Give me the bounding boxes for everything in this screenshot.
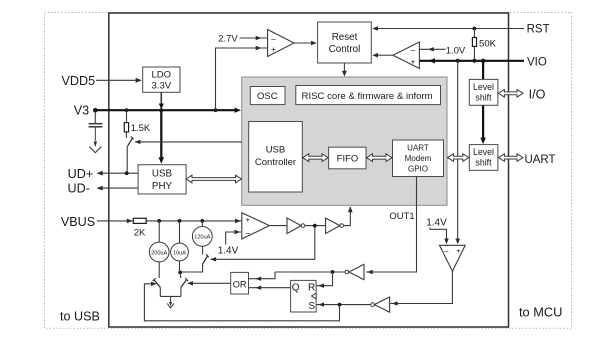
junction VIO/comparator riser bbox=[456, 59, 460, 63]
svg-text:2K: 2K bbox=[134, 227, 146, 238]
wire G4 out to S input bbox=[316, 304, 371, 306]
svg-text:Level: Level bbox=[473, 147, 494, 157]
svg-text:Reset: Reset bbox=[332, 32, 358, 43]
wire 2.7V to comparator minus bbox=[240, 37, 268, 39]
svg-text:200uA: 200uA bbox=[151, 250, 167, 256]
bus USB PHY to core bbox=[186, 175, 242, 183]
wire V3 to 1.5K bbox=[126, 110, 128, 122]
wire VIO riser down to window comparator bbox=[457, 61, 459, 239]
svg-text:1.4V: 1.4V bbox=[218, 246, 239, 257]
inverter G3 (left pointing) bbox=[349, 264, 364, 279]
LDO 3.3V regulator bbox=[143, 67, 180, 92]
svg-text:UD-: UD- bbox=[68, 182, 90, 196]
svg-text:Controller: Controller bbox=[255, 157, 296, 168]
wire Q output to OR input 2 bbox=[249, 287, 291, 289]
bus level shift 1 to I/O pin bbox=[498, 90, 523, 98]
svg-text:shift: shift bbox=[475, 158, 492, 168]
level shift block 2 (UART) bbox=[469, 145, 498, 171]
wire emitter rail bbox=[160, 295, 181, 297]
wire to OR input 1 bbox=[249, 272, 276, 279]
USB Controller block bbox=[249, 122, 303, 193]
RISC core block bbox=[296, 86, 441, 105]
svg-text:1.4V: 1.4V bbox=[426, 217, 447, 228]
svg-text:VDD5: VDD5 bbox=[62, 74, 96, 88]
current source 120uA bbox=[201, 221, 203, 227]
svg-text:+: + bbox=[411, 58, 416, 67]
wire UD- bbox=[102, 187, 138, 189]
wire RST bbox=[377, 28, 524, 30]
resistor 50K bbox=[473, 29, 475, 38]
wire G2 up into core bbox=[344, 207, 351, 226]
transistor Q2 bbox=[179, 272, 182, 278]
junction UD+ / pull-up bbox=[125, 171, 129, 175]
junction S / feedback bbox=[338, 303, 342, 307]
wire UD+ bbox=[102, 172, 138, 174]
bus UART GPIO to level shift 2 bbox=[448, 154, 469, 162]
op-amp comparator U2 (1.0V VIO detect) bbox=[393, 42, 419, 69]
svg-text:GPIO: GPIO bbox=[408, 165, 428, 174]
wire 1.5K to switch bbox=[125, 132, 127, 138]
FF1 clock mark bbox=[312, 293, 317, 299]
grey MCU core region bbox=[242, 77, 447, 205]
op-amp comparator U1 (2.7V POR) bbox=[268, 30, 294, 57]
junction RST / 50K bbox=[473, 27, 477, 31]
svg-text:shift: shift bbox=[475, 93, 492, 103]
wire level shift 1 to level shift 2 (thick) bbox=[482, 105, 484, 138]
svg-text:–: – bbox=[246, 228, 251, 237]
svg-text:USB: USB bbox=[266, 144, 286, 155]
wire U3 out to inverter bbox=[269, 225, 287, 227]
wire switch S2 to 10uA node bbox=[180, 264, 203, 272]
wire VBUS after 2K bbox=[146, 220, 241, 222]
wire V3 down to USB PHY (thick) bbox=[160, 110, 162, 158]
inverter G1 bbox=[287, 218, 301, 234]
wire U4 out to inverter G4 bbox=[390, 271, 453, 303]
svg-text:RISC core & firmware & inform: RISC core & firmware & inform bbox=[302, 91, 433, 102]
wire 10uA down bbox=[179, 261, 181, 273]
junction R tap bbox=[331, 270, 335, 274]
wire VIO (thick) bbox=[419, 60, 524, 62]
svg-text:VIO: VIO bbox=[527, 57, 547, 69]
junction switch control tap bbox=[313, 224, 317, 228]
wire G3 out to R / OR input bbox=[275, 271, 345, 273]
OSC block bbox=[250, 87, 285, 105]
wire switch to UD+ bbox=[126, 146, 128, 173]
svg-text:V3: V3 bbox=[74, 104, 89, 118]
wire VDD5 to LDO bbox=[96, 79, 140, 81]
node V3 bbox=[93, 108, 98, 113]
level shift block 1 (I/O) bbox=[469, 79, 498, 105]
wire 1.0V to U2 minus bbox=[419, 48, 445, 50]
junction 120uA tap bbox=[200, 219, 204, 223]
op-amp comparator U3 (VBUS detect) bbox=[242, 213, 270, 239]
switch S1 control wire from core bbox=[135, 141, 242, 143]
switch S1 blade bbox=[128, 138, 133, 146]
svg-text:+: + bbox=[271, 45, 276, 54]
svg-text:to USB: to USB bbox=[60, 310, 100, 324]
svg-text:1.0V: 1.0V bbox=[446, 46, 466, 57]
wire R input bbox=[316, 272, 332, 286]
UART Modem GPIO block bbox=[393, 140, 444, 177]
svg-text:RST: RST bbox=[527, 24, 550, 36]
svg-text:Q: Q bbox=[292, 283, 300, 294]
svg-text:+: + bbox=[456, 246, 461, 255]
flip-flop FF1 (RS latch) bbox=[291, 280, 317, 312]
chip solid boundary bbox=[109, 13, 509, 327]
wire Reset Control to core bbox=[343, 63, 345, 72]
svg-text:+: + bbox=[245, 215, 250, 224]
wire G1 to G2 bbox=[305, 225, 326, 227]
svg-text:10uA: 10uA bbox=[173, 250, 186, 256]
svg-text:3.3V: 3.3V bbox=[152, 81, 172, 92]
wire feedback S node to Q1 base bbox=[144, 284, 339, 321]
bus USB Controller to FIFO bbox=[303, 154, 328, 162]
switch S2 blade bbox=[203, 255, 208, 264]
Reset Control block bbox=[318, 22, 372, 63]
svg-text:Modem: Modem bbox=[405, 154, 432, 163]
wire 1.4V to U4 minus bbox=[430, 228, 447, 239]
svg-text:FIFO: FIFO bbox=[337, 154, 359, 165]
dotted outer boundary (decorative frame) bbox=[45, 13, 572, 329]
current source 10uA bbox=[179, 221, 181, 243]
resistor 2K bbox=[133, 218, 146, 223]
svg-text:to MCU: to MCU bbox=[519, 305, 562, 320]
wire OR output to Q2 base bbox=[188, 282, 231, 284]
junction 200uA tap bbox=[157, 219, 161, 223]
ground below capacitor bbox=[89, 147, 101, 153]
svg-text:–: – bbox=[411, 46, 416, 55]
junction at LDO output bbox=[159, 108, 163, 112]
svg-text:OSC: OSC bbox=[257, 91, 278, 102]
svg-text:1.5K: 1.5K bbox=[131, 123, 151, 134]
resistor 1.5K bbox=[124, 123, 128, 132]
svg-text:OR: OR bbox=[233, 279, 247, 289]
svg-text:USB: USB bbox=[152, 168, 173, 179]
FIFO block bbox=[329, 147, 366, 169]
svg-text:S: S bbox=[308, 301, 315, 312]
switch S2 control wire bbox=[211, 226, 315, 260]
wire LDO output down to V3 rail bbox=[160, 92, 162, 104]
wire 1.4V to U3 minus bbox=[226, 232, 241, 245]
bus FIFO to UART bbox=[367, 154, 393, 162]
svg-text:R: R bbox=[308, 282, 315, 293]
junction 10uA / switch bbox=[178, 271, 182, 275]
current source 200uA bbox=[158, 221, 160, 242]
svg-text:Level: Level bbox=[473, 82, 494, 92]
inverter G2 bbox=[326, 218, 340, 234]
inverter G4 (left pointing) bbox=[374, 297, 389, 312]
wire V3 rail (thick) bbox=[95, 109, 237, 111]
ground below transistors bbox=[170, 296, 172, 303]
wire 120uA to switch S2 bbox=[202, 246, 204, 254]
svg-text:UD+: UD+ bbox=[68, 167, 94, 181]
svg-text:LDO: LDO bbox=[152, 70, 172, 81]
svg-text:50K: 50K bbox=[479, 39, 497, 50]
OR gate block bbox=[231, 272, 249, 294]
junction to comparator riser bbox=[214, 108, 218, 112]
svg-text:VBUS: VBUS bbox=[61, 215, 95, 229]
junction VIO/50K bbox=[472, 59, 476, 63]
wire U2 out to Reset Control bbox=[377, 54, 393, 56]
svg-text:2.7V: 2.7V bbox=[218, 34, 238, 45]
junction 10uA tap bbox=[178, 219, 182, 223]
wire V3 riser to comparator plus bbox=[216, 48, 268, 110]
svg-text:UART: UART bbox=[407, 143, 429, 152]
bus level shift 2 to UART pins bbox=[498, 154, 523, 162]
junction VIO/level-shift supply bbox=[481, 59, 485, 63]
transistor Q1 bbox=[158, 262, 160, 278]
wire VBUS bbox=[97, 220, 133, 222]
wire OUT1 from UART GPIO down bbox=[366, 177, 417, 273]
wire VIO down to level shift 1 (thick) bbox=[482, 61, 484, 80]
svg-text:OUT1: OUT1 bbox=[389, 211, 414, 222]
svg-text:PHY: PHY bbox=[152, 181, 173, 192]
svg-text:Control: Control bbox=[329, 44, 361, 55]
USB PHY block bbox=[138, 165, 186, 194]
wire comparator U1 out to Reset Control bbox=[294, 42, 313, 44]
svg-text:120uA: 120uA bbox=[194, 235, 210, 241]
svg-text:I/O: I/O bbox=[529, 88, 546, 102]
svg-text:–: – bbox=[271, 34, 276, 43]
junction above 1.5K bbox=[125, 108, 129, 112]
capacitor on V3 bbox=[94, 112, 96, 123]
svg-text:UART: UART bbox=[524, 154, 555, 166]
